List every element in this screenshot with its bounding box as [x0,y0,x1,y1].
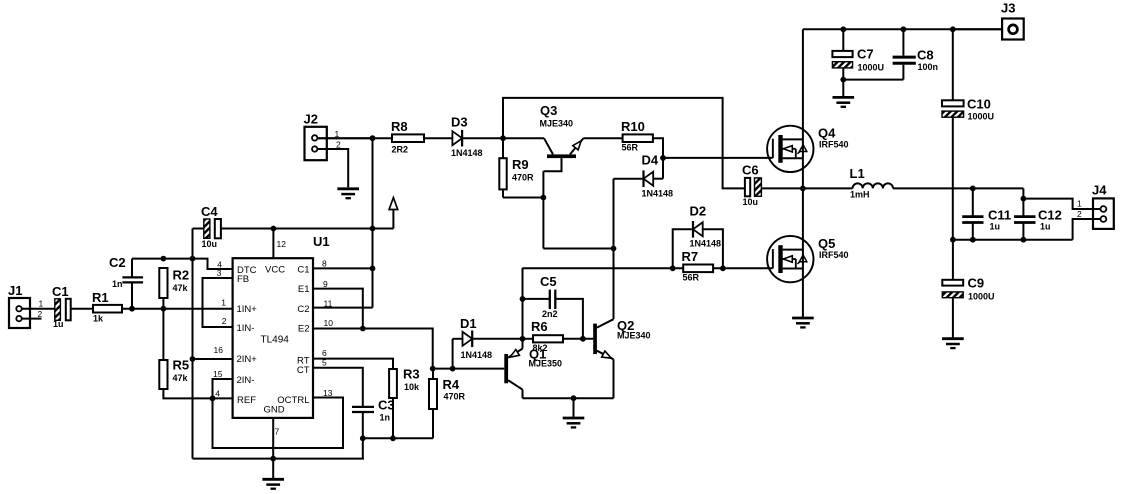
svg-text:470R: 470R [512,173,534,183]
svg-text:IRF540: IRF540 [819,140,849,150]
svg-text:J3: J3 [1001,1,1015,16]
svg-text:1N4148: 1N4148 [690,239,722,249]
svg-text:1u: 1u [53,319,64,329]
svg-text:2IN-: 2IN- [237,375,255,386]
svg-text:1: 1 [335,129,340,139]
svg-text:C2: C2 [109,255,126,270]
svg-text:1mH: 1mH [850,190,870,200]
svg-text:C4: C4 [201,204,218,219]
svg-text:D3: D3 [451,115,468,130]
svg-text:1u: 1u [990,222,1001,232]
svg-text:C1: C1 [52,284,69,299]
svg-text:56R: 56R [622,143,639,153]
svg-text:R5: R5 [173,358,190,373]
svg-text:3: 3 [217,268,222,278]
svg-text:VCC: VCC [265,265,285,276]
svg-text:8k2: 8k2 [533,343,548,353]
svg-text:J2: J2 [304,112,318,127]
svg-text:1IN-: 1IN- [237,323,255,334]
svg-text:12: 12 [277,239,287,249]
svg-text:R10: R10 [621,119,645,134]
svg-text:1k: 1k [93,314,104,324]
svg-text:C6: C6 [742,163,759,178]
svg-text:1n: 1n [380,413,391,423]
svg-text:R1: R1 [92,290,109,305]
svg-text:E2: E2 [298,324,310,335]
svg-text:D4: D4 [642,153,659,168]
svg-text:C9: C9 [968,276,985,291]
svg-text:D2: D2 [690,204,707,219]
svg-text:R9: R9 [512,157,529,172]
svg-text:C5: C5 [540,274,557,289]
svg-text:1N4148: 1N4148 [461,350,493,360]
svg-text:7: 7 [275,427,280,437]
svg-text:1IN+: 1IN+ [237,304,258,315]
svg-text:C8: C8 [917,48,934,63]
svg-text:9: 9 [323,279,328,289]
svg-text:1N4148: 1N4148 [451,148,483,158]
svg-text:R6: R6 [531,319,548,334]
svg-text:1: 1 [39,299,44,309]
svg-text:1N4148: 1N4148 [642,189,674,199]
svg-text:C2: C2 [297,304,309,315]
svg-text:R4: R4 [443,377,460,392]
svg-text:56R: 56R [683,273,700,283]
svg-text:R2: R2 [173,268,190,283]
svg-text:L1: L1 [850,166,865,181]
svg-text:100n: 100n [918,62,939,72]
svg-text:1000U: 1000U [968,112,995,122]
svg-text:10k: 10k [404,382,420,392]
svg-text:Q4: Q4 [818,126,836,141]
svg-text:E1: E1 [298,284,310,295]
svg-text:J4: J4 [1092,183,1107,198]
svg-text:1000U: 1000U [968,292,995,302]
svg-text:2IN+: 2IN+ [237,354,258,365]
svg-text:FB: FB [237,274,249,285]
svg-text:6: 6 [322,348,327,358]
svg-text:D1: D1 [460,316,477,331]
svg-text:2: 2 [222,316,227,326]
svg-text:1u: 1u [1040,222,1051,232]
svg-text:R7: R7 [682,249,699,264]
svg-text:C3: C3 [378,398,395,413]
svg-text:16: 16 [214,345,224,355]
svg-text:MJE350: MJE350 [529,359,563,369]
svg-text:2: 2 [38,309,43,319]
svg-text:C10: C10 [967,97,991,112]
svg-text:1: 1 [1077,199,1082,209]
svg-text:REF: REF [237,395,256,406]
svg-text:GND: GND [264,405,285,416]
svg-text:TL494: TL494 [261,335,290,346]
svg-text:1000U: 1000U [858,63,885,73]
svg-text:R8: R8 [391,119,408,134]
svg-text:15: 15 [213,369,223,379]
svg-text:2: 2 [336,140,341,150]
svg-text:2R2: 2R2 [392,145,409,155]
svg-text:C1: C1 [297,265,309,276]
svg-text:J1: J1 [8,283,22,298]
svg-text:C7: C7 [857,47,874,62]
svg-text:10u: 10u [202,239,218,249]
svg-text:470R: 470R [444,392,466,402]
svg-text:10u: 10u [743,197,759,207]
svg-text:MJE340: MJE340 [540,119,574,129]
svg-text:CT: CT [297,365,310,376]
svg-text:Q3: Q3 [540,103,557,118]
svg-text:10: 10 [324,318,334,328]
svg-text:MJE340: MJE340 [617,331,651,341]
svg-text:IRF540: IRF540 [819,250,849,260]
svg-text:U1: U1 [313,234,330,249]
svg-text:2n2: 2n2 [542,309,558,319]
svg-text:C11: C11 [988,208,1011,223]
svg-text:2: 2 [1077,209,1082,219]
svg-text:R3: R3 [403,367,420,382]
svg-text:8: 8 [322,259,327,269]
svg-text:1n: 1n [112,279,123,289]
svg-text:1: 1 [221,298,226,308]
svg-text:47k: 47k [173,283,189,293]
svg-text:C12: C12 [1038,208,1062,223]
svg-text:Q5: Q5 [818,236,835,251]
svg-text:47k: 47k [173,373,189,383]
